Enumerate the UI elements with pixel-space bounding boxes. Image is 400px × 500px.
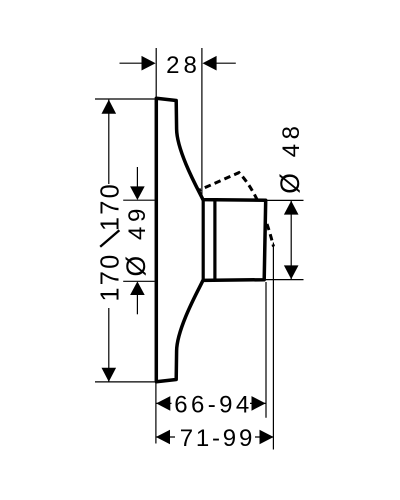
dimension 71-99 xyxy=(156,425,274,452)
dimension dia 49: extension lines xyxy=(123,200,154,281)
svg-text:170: 170 xyxy=(97,182,125,231)
dimension dia 48: line and arrows xyxy=(284,201,299,279)
bottom extension lines xyxy=(156,243,274,450)
svg-text:Ø 48: Ø 48 xyxy=(275,121,305,193)
dimension 66-94 xyxy=(156,392,265,419)
dashed handle (tilted position) xyxy=(195,173,274,247)
dimension 28: arrows and tails xyxy=(120,56,236,71)
dimension 170/170: line and arrows xyxy=(102,100,117,382)
dimension dia 48: extension lines xyxy=(259,200,304,279)
escutcheon plate and handle profile xyxy=(156,98,265,382)
dimension 28: extension lines xyxy=(156,48,202,199)
dimension dia 49: arrows xyxy=(130,167,145,314)
svg-text:71-99: 71-99 xyxy=(180,425,255,452)
svg-text:66-94: 66-94 xyxy=(174,392,252,419)
svg-text:28: 28 xyxy=(166,52,201,79)
sleeve front face xyxy=(202,200,205,281)
handle groove xyxy=(213,200,216,279)
dimension 170/170: extension lines xyxy=(95,99,155,382)
svg-text:Ø 49: Ø 49 xyxy=(121,204,151,276)
dimension 170/170: label xyxy=(96,182,125,308)
